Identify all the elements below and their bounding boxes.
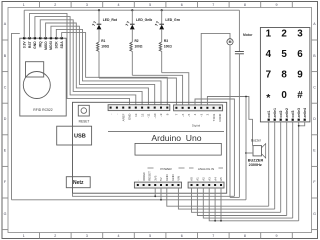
svg-text:7: 7 — [266, 70, 272, 81]
keypad pin zeile3 — [298, 119, 300, 121]
svg-text:D: D — [313, 117, 316, 121]
svg-text:2300Hz: 2300Hz — [249, 163, 262, 167]
RFID RC522 module U1 — [20, 38, 66, 116]
analog header J4 — [188, 182, 224, 188]
wire bus A3-zeile3 — [209, 188, 299, 221]
svg-text:7: 7 — [212, 3, 214, 7]
svg-text:12: 12 — [140, 113, 144, 117]
wire capacitor to bus — [238, 54, 240, 198]
J4 pin A3 — [208, 184, 210, 186]
svg-text:~10: ~10 — [153, 113, 157, 118]
wire motor to bus — [229, 45, 231, 198]
wire top line to capacitor C1 — [238, 10, 240, 51]
svg-text:Netz: Netz — [73, 180, 84, 186]
svg-text:Digital: Digital — [192, 124, 201, 128]
svg-text:zeile4: zeile4 — [303, 108, 307, 118]
J1 pin 3 (AREF) — [122, 107, 124, 109]
J1 pin 10 (8) — [166, 107, 168, 109]
svg-text:8: 8 — [244, 3, 246, 7]
svg-text:1: 1 — [266, 29, 272, 40]
wire power 5V drop to bus A — [154, 188, 156, 196]
svg-text:SCK: SCK — [55, 41, 59, 49]
svg-text:4: 4 — [118, 234, 120, 238]
Arduino Uno board outline — [73, 102, 227, 193]
svg-text:MISO: MISO — [44, 41, 48, 50]
J3 pin GND — [172, 184, 174, 186]
svg-text:GND: GND — [171, 174, 175, 180]
wire bus GND-col1 — [167, 188, 269, 206]
svg-text:6: 6 — [181, 234, 183, 238]
svg-text:100Ω: 100Ω — [164, 44, 172, 48]
J1 pin 9 (~9) — [160, 107, 162, 109]
svg-text:POWER: POWER — [160, 167, 172, 171]
keypad pin col3 — [292, 119, 294, 121]
svg-text:~3: ~3 — [199, 113, 203, 117]
svg-text:100Ω: 100Ω — [101, 44, 109, 48]
J3 pin RESET — [148, 184, 150, 186]
svg-text:4: 4 — [118, 3, 120, 7]
J1 pin 6 (12) — [141, 107, 143, 109]
svg-text:RESET: RESET — [79, 120, 90, 124]
wire branch to bus from pin2 net — [245, 97, 247, 200]
svg-text:C: C — [4, 85, 7, 89]
digital header J2 8pin — [174, 105, 223, 111]
svg-text:zeile3: zeile3 — [297, 108, 301, 118]
svg-text:zeile1: zeile1 — [273, 108, 277, 118]
svg-text:col2: col2 — [279, 111, 283, 118]
svg-text:-: - — [136, 180, 140, 181]
svg-text:5V: 5V — [159, 177, 163, 181]
RFID pin IRQ — [39, 37, 41, 39]
J2 pin 7 — [175, 107, 177, 109]
svg-text:~6: ~6 — [181, 113, 185, 117]
wire RFID IRQ to pin 12 — [40, 20, 142, 105]
RFID pin GND — [34, 37, 36, 39]
svg-text:Buzzer: Buzzer — [251, 138, 262, 142]
J3 pin 5V — [160, 184, 162, 186]
svg-text:GND: GND — [33, 41, 37, 49]
RFID pin SCK — [55, 37, 57, 39]
Arduino inner rect — [135, 143, 221, 155]
svg-text:-: - — [109, 114, 113, 115]
svg-text:3: 3 — [86, 3, 88, 7]
J3 pin 3V3 — [154, 184, 156, 186]
svg-text:LED_Gelb: LED_Gelb — [136, 18, 152, 22]
J3 pin GND — [166, 184, 168, 186]
J4 pin A2 — [202, 184, 204, 186]
svg-text:6: 6 — [181, 3, 183, 7]
svg-text:1: 1 — [23, 234, 25, 238]
buzzer LS1 body — [253, 146, 262, 156]
svg-text:A2: A2 — [202, 177, 206, 181]
Arduino inner separator line — [108, 130, 224, 132]
digital header J1 10pin — [108, 105, 170, 111]
svg-text:A3: A3 — [207, 177, 211, 181]
J4 pin A0 — [191, 184, 193, 186]
svg-text:G: G — [4, 212, 7, 216]
svg-text:D: D — [4, 117, 7, 121]
wire RFID MISO to pin ~11 — [46, 23, 149, 105]
svg-text:TXD1: TXD1 — [212, 113, 216, 121]
svg-text:9: 9 — [297, 70, 303, 81]
svg-text:C: C — [313, 85, 316, 89]
J2 pin ~5 — [188, 107, 190, 109]
J3 pin IOREF — [143, 184, 145, 186]
reset button S1 — [78, 105, 89, 116]
wire pin ~3 to motor — [201, 33, 230, 105]
USB connector — [57, 126, 92, 145]
svg-text:BUZZER: BUZZER — [248, 159, 264, 163]
Netz power connector — [66, 177, 90, 188]
svg-text:RXD0: RXD0 — [218, 113, 222, 121]
RFID pin RST — [28, 37, 30, 39]
keypad pin col2 — [280, 119, 282, 121]
svg-text:VIN: VIN — [177, 176, 181, 181]
svg-text:MOSI: MOSI — [49, 41, 53, 50]
J1 pin 5 (13) — [135, 107, 137, 109]
svg-text:-: - — [115, 114, 119, 115]
svg-text:A5: A5 — [219, 177, 223, 181]
J4 pin A1 — [196, 184, 198, 186]
svg-text:13: 13 — [134, 113, 138, 117]
wire 3.3V top line — [24, 9, 239, 11]
junction buzzer stub — [245, 152, 247, 154]
J2 pin RXD0 — [219, 107, 221, 109]
J2 pin TXD1 — [213, 107, 215, 109]
wire A4 drop to bus — [214, 188, 216, 221]
RFID antenna circle — [23, 72, 50, 99]
wire power GND drop to bus B — [160, 188, 162, 200]
J1 pin 4 (GND) — [129, 107, 131, 109]
J2 pin ~6 — [182, 107, 184, 109]
buzzer wire stub — [246, 152, 253, 154]
svg-text:#: # — [297, 90, 303, 101]
svg-text:RFID RC522: RFID RC522 — [33, 108, 53, 112]
J1 pin 1 (-) — [110, 107, 112, 109]
svg-text:100Ω: 100Ω — [135, 44, 143, 48]
wire bus level B rail to buzzer branch — [12, 199, 247, 201]
svg-text:3: 3 — [297, 29, 303, 40]
svg-text:A0: A0 — [190, 177, 194, 181]
svg-text:GND: GND — [165, 174, 169, 180]
svg-text:SDA: SDA — [60, 41, 64, 49]
wire motor-cap net — [230, 196, 239, 198]
svg-text:5: 5 — [149, 234, 151, 238]
svg-text:LED_Grn: LED_Grn — [165, 18, 180, 22]
J3 pin VIN — [177, 184, 179, 186]
power header J3 — [134, 182, 181, 188]
svg-text:Arduino Uno: Arduino Uno — [151, 133, 201, 143]
motor M1 — [227, 39, 233, 45]
junction pin2 branch — [245, 96, 247, 98]
svg-text:~9: ~9 — [159, 113, 163, 117]
wire bus A0-col2 — [192, 188, 281, 212]
J1 pin 8 (~10) — [154, 107, 156, 109]
svg-text:5: 5 — [149, 3, 151, 7]
wire pin 4 loop — [195, 99, 234, 196]
svg-text:8: 8 — [281, 70, 287, 81]
svg-text:3: 3 — [86, 234, 88, 238]
wire pin 2 to buzzer top — [207, 97, 252, 146]
wire 3.3V pin riser — [23, 10, 25, 38]
wire bus A2-col3 — [203, 188, 292, 218]
keypad pin zeile2 — [286, 119, 288, 121]
svg-text:USB: USB — [74, 133, 86, 139]
wire RFID MOSI to pin ~10 — [51, 26, 155, 105]
J4 pin A4 — [214, 184, 216, 186]
svg-text:2: 2 — [54, 234, 56, 238]
svg-text:IRQ: IRQ — [39, 41, 43, 47]
svg-text:0: 0 — [281, 90, 287, 101]
J4 pin A5 — [220, 184, 222, 186]
svg-text:4: 4 — [266, 49, 272, 60]
svg-text:2: 2 — [54, 3, 56, 7]
wire RFID RST to pin GND — [30, 13, 130, 104]
svg-text:1: 1 — [23, 3, 25, 7]
svg-text:col1: col1 — [267, 111, 271, 118]
svg-text:9: 9 — [276, 234, 278, 238]
LED_Rot D1 with resistor R1 — [98, 10, 100, 24]
svg-text:8: 8 — [244, 234, 246, 238]
svg-text:A4: A4 — [213, 177, 217, 181]
svg-text:3V3: 3V3 — [153, 175, 157, 181]
svg-text:~5: ~5 — [187, 113, 191, 117]
RFID pin MOSI — [50, 37, 52, 39]
RFID chip rect — [26, 62, 44, 77]
J1 pin 2 (-) — [116, 107, 118, 109]
svg-text:R2: R2 — [135, 39, 139, 43]
wire bus level A from board edge to pin4 branch — [73, 193, 235, 196]
keypad pin zeile1 — [274, 119, 276, 121]
svg-text:Motor: Motor — [243, 33, 253, 37]
capacitor C1 plates — [235, 51, 244, 53]
svg-text:G: G — [313, 212, 316, 216]
svg-text:M: M — [229, 40, 232, 44]
wire RFID SCK to pin ~9 — [56, 29, 161, 104]
LED_Gruen D3 with resistor R3 — [161, 10, 163, 24]
frame tick separators — [39, 2, 41, 8]
svg-text:6: 6 — [297, 49, 303, 60]
J1 pin 7 (~11) — [147, 107, 149, 109]
J3 pin - — [137, 184, 139, 186]
wire bus A1-zeile2 — [197, 188, 286, 216]
svg-text:IOREF: IOREF — [142, 172, 146, 181]
RFID pin MISO — [44, 37, 46, 39]
LED_Gelb D2 with resistor R2 — [131, 10, 133, 24]
svg-text:A1: A1 — [196, 177, 200, 181]
keypad pin col1 — [268, 119, 270, 121]
svg-text:5: 5 — [281, 49, 287, 60]
svg-text:LED_Rot: LED_Rot — [103, 18, 118, 22]
J2 pin ~3 — [200, 107, 202, 109]
svg-text:col3: col3 — [291, 111, 295, 118]
svg-text:3.3V: 3.3V — [23, 41, 27, 49]
POWER label — [148, 167, 154, 169]
svg-text:GND: GND — [128, 114, 132, 120]
wire RFID SDA to pin 8 — [62, 33, 168, 105]
RFID pin 3.3V — [23, 37, 25, 39]
svg-text:AREF: AREF — [121, 113, 125, 121]
svg-text:7: 7 — [212, 234, 214, 238]
svg-text:9: 9 — [276, 3, 278, 7]
svg-text:zeile2: zeile2 — [285, 108, 289, 118]
svg-text:RESET: RESET — [148, 171, 152, 181]
keypad KP1 box — [260, 28, 310, 122]
svg-text:2: 2 — [281, 29, 287, 40]
RFID pin SDA — [61, 37, 63, 39]
ANALOG IN label — [189, 167, 194, 169]
keypad pin zeile4 — [304, 119, 306, 121]
wire A5 drop to bus — [220, 188, 222, 221]
wire RFID GND to pin 13 — [35, 17, 136, 105]
J2 pin 4 — [194, 107, 196, 109]
J2 pin 2 — [206, 107, 208, 109]
svg-text:RST: RST — [28, 40, 32, 48]
junction dots top line — [98, 9, 100, 11]
wire bus VIN-zeile1 — [178, 188, 274, 209]
svg-text:R1: R1 — [101, 39, 105, 43]
wire keypad zeile4 dogleg — [299, 122, 305, 126]
svg-text:~11: ~11 — [147, 113, 151, 118]
svg-text:ANALOG IN: ANALOG IN — [198, 167, 214, 171]
wire left rail 3.3V loop — [12, 33, 20, 199]
svg-text:R3: R3 — [164, 39, 168, 43]
